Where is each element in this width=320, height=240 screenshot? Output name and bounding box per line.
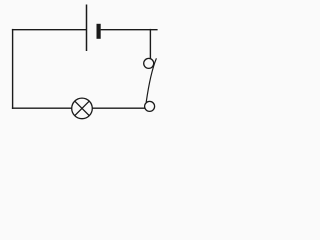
wire switch drop	[149, 29, 151, 59]
switch S1 top contact	[144, 58, 154, 68]
battery B1 long plate (+)	[86, 5, 88, 52]
wire top-right segment	[101, 29, 158, 31]
wire left side	[12, 29, 14, 109]
wire top-left segment	[12, 29, 86, 31]
switch S1 bottom contact	[145, 101, 155, 111]
wire bottom-left segment	[12, 107, 72, 109]
wire bottom-right segment	[92, 107, 145, 109]
switch S1 blade	[146, 58, 156, 102]
lamp L1 circle	[72, 98, 93, 119]
battery B1 short plate (-)	[96, 24, 100, 39]
lamp L1 cross	[75, 101, 90, 116]
